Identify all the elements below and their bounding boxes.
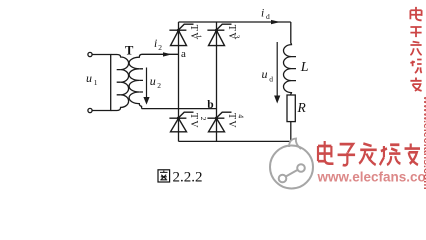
- svg-text:L: L: [300, 60, 309, 75]
- svg-text:TV: TV: [188, 113, 199, 129]
- svg-text:2: 2: [158, 43, 162, 52]
- svg-text:b: b: [207, 99, 213, 111]
- svg-text:1: 1: [94, 78, 98, 87]
- svg-text:4: 4: [237, 114, 246, 118]
- svg-text:2: 2: [157, 81, 161, 90]
- svg-text:i: i: [261, 8, 264, 20]
- svg-text:d: d: [266, 12, 270, 21]
- svg-text:2.2.2: 2.2.2: [173, 170, 203, 186]
- svg-text:1: 1: [195, 35, 204, 39]
- svg-text:2: 2: [199, 117, 208, 121]
- svg-text:u: u: [86, 71, 92, 85]
- svg-text:a: a: [181, 48, 186, 60]
- svg-text:R: R: [297, 100, 307, 115]
- svg-text:TV: TV: [226, 113, 237, 129]
- svg-text:www.elecfans.com: www.elecfans.com: [421, 95, 426, 190]
- svg-text:u: u: [150, 74, 156, 88]
- svg-text:T: T: [125, 44, 134, 58]
- svg-text:www.elecfans.com: www.elecfans.com: [317, 170, 426, 185]
- svg-text:3: 3: [233, 35, 242, 39]
- svg-text:u: u: [262, 67, 268, 81]
- svg-text:d: d: [269, 75, 273, 84]
- svg-text:i: i: [154, 38, 157, 50]
